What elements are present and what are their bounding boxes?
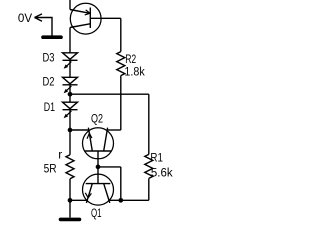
diode D2 [63, 77, 78, 93]
wire (Q2 collector right) [107, 129, 121, 131]
junction node B [68, 128, 73, 133]
diode D3 [63, 53, 78, 69]
svg-text:5R: 5R [44, 162, 57, 176]
ground (0V rail marker) [43, 35, 61, 39]
junction node E [118, 198, 123, 203]
ground [61, 218, 80, 222]
svg-text:r: r [58, 148, 62, 162]
transistor Q1 (NPN, diode-connected) [83, 167, 114, 205]
resistor R1 [145, 154, 153, 178]
wire (node E to R1 bottom) [121, 199, 149, 201]
resistor R2 [117, 52, 125, 76]
wire (node A to R1 top, horizontal) [70, 93, 149, 95]
wire (D1 to resistor r) [69, 110, 71, 155]
diode D1 [63, 102, 78, 118]
wire (node B to Q2 emitter) [70, 129, 89, 131]
svg-text:Q2: Q2 [91, 112, 103, 126]
wire (node C to Q1 emitter) [70, 199, 87, 201]
wire (R1 top lead) [148, 94, 150, 154]
wire (R1 bottom lead) [148, 178, 150, 200]
svg-text:1.8k: 1.8k [124, 64, 145, 78]
svg-text:D3: D3 [43, 50, 55, 64]
transistor Q2 (NPN) [83, 128, 114, 167]
wire (D3 to D2) [69, 60, 71, 77]
wire (R2 top to Q3 base) [120, 18, 122, 51]
transistor Q3 (PNP, unlabeled) [70, 3, 121, 34]
wire (emitter of PNP to top edge) [69, 0, 71, 10]
junction node D (bases of Q1,Q2) [96, 165, 101, 170]
wire (D2 to D1) [69, 85, 71, 102]
resistor r (5R) [66, 155, 74, 179]
wire (Q1 collector to node E) [109, 199, 121, 201]
svg-text:Q1: Q1 [91, 206, 102, 220]
wire (Q2 collector up to R2) [120, 76, 122, 130]
svg-text:D2: D2 [43, 75, 55, 89]
wire (down to node E) [120, 167, 122, 200]
wire (resistor r to ground) [69, 179, 71, 218]
0V rail arrow [35, 14, 53, 36]
svg-text:5.6k: 5.6k [151, 165, 174, 179]
svg-text:R1: R1 [150, 151, 163, 165]
svg-text:0V: 0V [18, 11, 33, 25]
wire (Q3 collector to D3) [69, 28, 71, 53]
junction node A [68, 92, 73, 97]
wire (node D right) [98, 166, 121, 168]
svg-text:D1: D1 [44, 100, 55, 114]
junction node C [68, 198, 73, 203]
